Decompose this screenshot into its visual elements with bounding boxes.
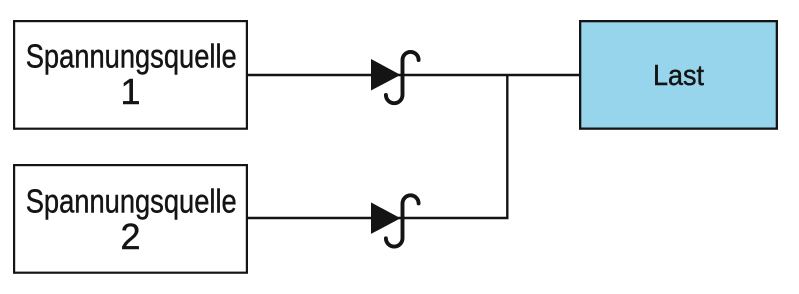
svg-text:2: 2 xyxy=(120,216,140,257)
svg-text:Spannungsquelle: Spannungsquelle xyxy=(26,38,237,75)
svg-text:Last: Last xyxy=(653,60,704,92)
svg-text:Spannungsquelle: Spannungsquelle xyxy=(26,183,237,220)
svg-text:1: 1 xyxy=(120,71,140,112)
